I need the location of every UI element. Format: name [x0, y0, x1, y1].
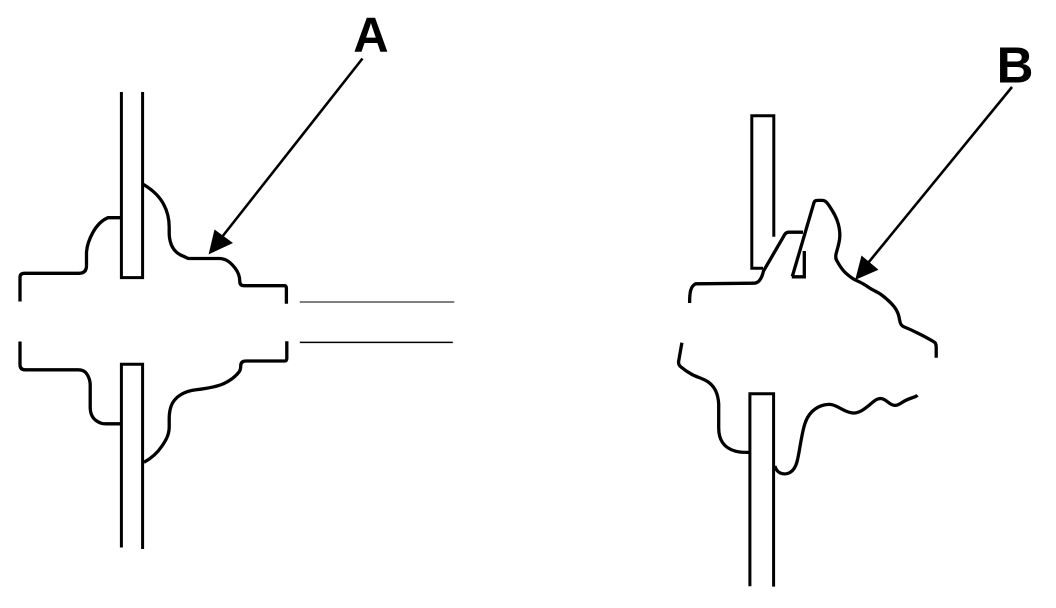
svg-text:B: B	[997, 36, 1034, 93]
svg-text:A: A	[353, 8, 388, 62]
